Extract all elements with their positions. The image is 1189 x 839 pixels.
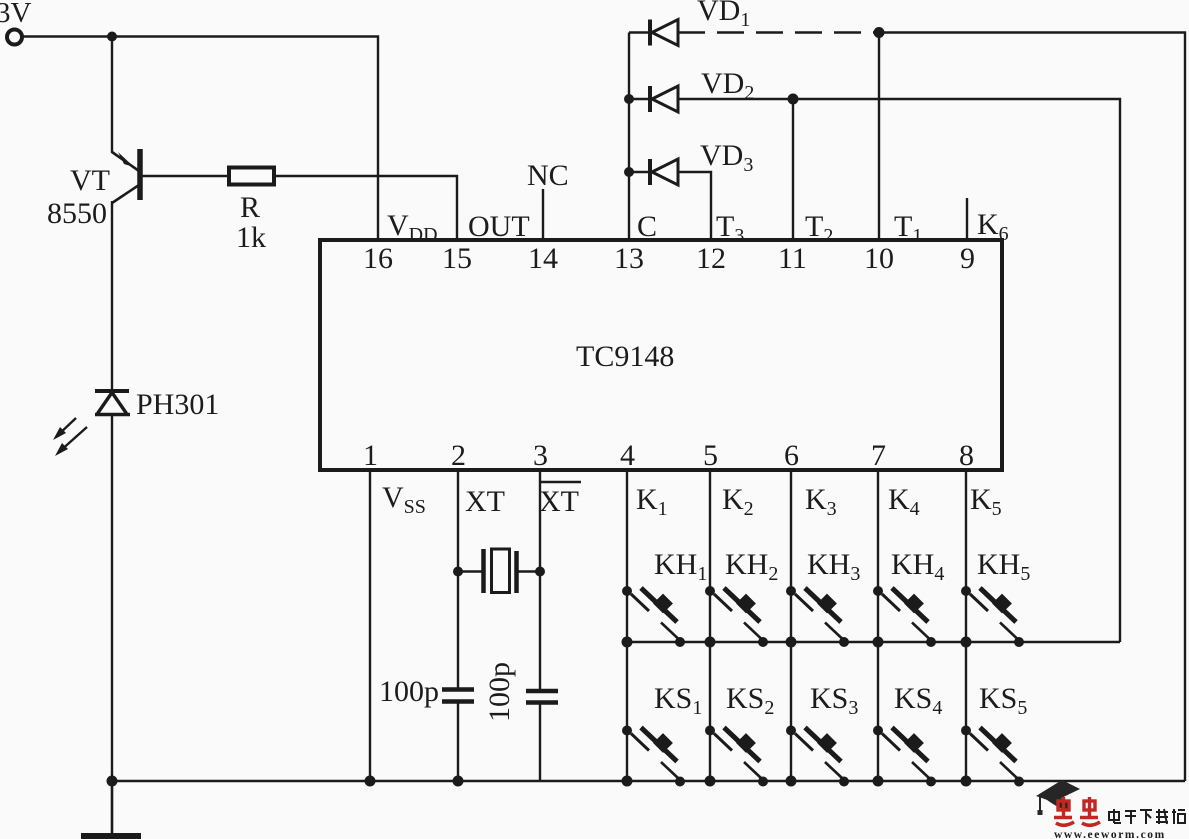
node KH rail col7 <box>873 637 884 648</box>
node KS rail col4 <box>622 776 633 787</box>
svg-text:1: 1 <box>363 439 378 472</box>
svg-text:8: 8 <box>959 439 974 472</box>
resistor R body <box>229 168 274 185</box>
node pin2 rail <box>453 776 464 787</box>
wire pin2 below cap <box>457 703 459 781</box>
wire top rail from terminal to VDD corner <box>23 37 379 241</box>
switch KS4 <box>873 726 936 787</box>
svg-text:10: 10 <box>864 242 894 275</box>
crystal body <box>492 549 510 593</box>
svg-text:7: 7 <box>871 439 886 472</box>
crystal XT node left <box>453 567 463 577</box>
transistor collector <box>112 185 139 203</box>
wire VD2 left lead <box>629 98 650 100</box>
diode VD1 <box>650 20 678 46</box>
crystal XT node right <box>535 567 545 577</box>
svg-text:C: C <box>637 210 657 243</box>
logo cap board <box>1036 780 1080 802</box>
LED cathode bar <box>95 389 129 393</box>
node KS rail col8 <box>961 776 972 787</box>
node VD2 left <box>624 94 634 104</box>
char zhan <box>1172 811 1176 813</box>
switch KS5 <box>961 726 1024 787</box>
char dian <box>1109 812 1119 820</box>
ground <box>81 833 141 839</box>
node pin1 rail <box>365 776 376 787</box>
node KH rail col8 <box>961 637 972 648</box>
logo cap base <box>1043 793 1070 812</box>
node junction at emitter column <box>107 32 117 42</box>
wire to ground symbol <box>111 781 114 834</box>
svg-text:XT: XT <box>539 485 579 518</box>
logo worm 2 <box>1080 797 1100 825</box>
LED anode bar <box>95 413 130 417</box>
char zai <box>1156 811 1168 813</box>
svg-text:1k: 1k <box>236 221 266 254</box>
wire column pin6 <box>790 470 792 781</box>
switch KH1 <box>622 586 685 647</box>
switch KH5 <box>961 586 1024 647</box>
emission arrow 1 <box>57 418 76 436</box>
svg-text:15: 15 <box>442 242 472 275</box>
svg-text:13: 13 <box>614 242 644 275</box>
wire T2 drop to pin 11 <box>792 99 794 240</box>
wire emitter drop <box>111 37 113 154</box>
char zi <box>1125 810 1136 812</box>
capacitor C1 100p plates <box>442 687 474 692</box>
wire VD1 left lead <box>629 31 650 33</box>
wire T1 drop to pin 10 <box>878 33 880 241</box>
transistor emitter with arrow <box>112 152 139 171</box>
node KS rail col6 <box>786 776 797 787</box>
wire collector drop <box>111 201 113 391</box>
svg-text:www.eeworm.com: www.eeworm.com <box>1054 829 1166 839</box>
wire column pin7 <box>877 470 879 781</box>
node KS rail col5 <box>705 776 716 787</box>
wire bottom rail <box>112 780 1185 782</box>
svg-text:12: 12 <box>696 242 726 275</box>
node KH rail col4 <box>622 637 633 648</box>
svg-text:TC9148: TC9148 <box>576 340 674 373</box>
logo tassel <box>1039 797 1041 810</box>
svg-text:16: 16 <box>363 242 393 275</box>
wire VD2 output <box>678 99 1120 642</box>
svg-text:4: 4 <box>620 439 635 472</box>
wire pin1 VSS drop <box>369 470 371 781</box>
svg-text:VT: VT <box>70 164 110 197</box>
wire KH rail <box>627 641 1120 643</box>
char xia <box>1140 809 1152 811</box>
svg-text:9: 9 <box>960 242 975 275</box>
node KH rail col5 <box>705 637 716 648</box>
transistor VT base bar <box>137 149 143 200</box>
diode VD3 <box>650 159 678 185</box>
crystal leads <box>458 570 483 573</box>
LED triangle <box>98 393 127 414</box>
logo chinese text <box>1109 809 1185 824</box>
svg-text:OUT: OUT <box>468 210 530 243</box>
wire resistor to OUT pin corner <box>274 176 457 240</box>
svg-text:14: 14 <box>528 242 558 275</box>
wire VD1 to right edge <box>879 33 1185 782</box>
crystal plates <box>481 549 486 593</box>
node VD3 left <box>624 167 634 177</box>
wire pin2 XT drop upper <box>457 470 459 688</box>
svg-text:PH301: PH301 <box>136 388 219 421</box>
node KS rail col7 <box>873 776 884 787</box>
svg-text:6: 6 <box>784 439 799 472</box>
switch KS1 <box>622 726 685 787</box>
switch KH2 <box>705 586 768 647</box>
node T1 tap <box>874 27 885 38</box>
wire column pin4 <box>626 470 628 781</box>
switch KH3 <box>786 586 849 647</box>
svg-text:2: 2 <box>451 439 466 472</box>
wire VD3 output to pin 12 <box>678 172 711 240</box>
diode VD2 <box>650 86 678 112</box>
svg-text:XT: XT <box>465 485 505 518</box>
wire LED to ground rail <box>111 414 113 782</box>
svg-text:3: 3 <box>533 439 548 472</box>
wire NC stub <box>542 189 544 240</box>
svg-text:8550: 8550 <box>47 197 107 230</box>
svg-text:100p: 100p <box>483 662 516 722</box>
wire base to resistor <box>140 175 229 177</box>
svg-text:100p: 100p <box>379 675 439 708</box>
wire column pin5 <box>709 470 711 781</box>
wire pin3 XTbar drop upper <box>539 470 541 689</box>
svg-text:R: R <box>240 191 260 224</box>
op-amp U1 TC9148 body <box>320 240 1002 470</box>
terminal 3V <box>7 30 22 45</box>
emission arrow 2 <box>59 427 87 452</box>
svg-text:NC: NC <box>527 159 569 192</box>
capacitor C2 100p plates <box>526 689 558 694</box>
node ground rail left <box>107 776 118 787</box>
node KH rail col6 <box>786 637 797 648</box>
svg-text:5: 5 <box>703 439 718 472</box>
wire pin3 below cap <box>539 704 541 781</box>
switch KH4 <box>873 586 936 647</box>
switch KS3 <box>786 726 849 787</box>
switch KS2 <box>705 726 768 787</box>
svg-text:3V: 3V <box>0 0 32 29</box>
wire VD1 output dashed <box>678 31 879 33</box>
wire diode column <box>628 33 630 241</box>
wire VD3 left lead <box>629 171 650 173</box>
node T2 tap <box>788 94 799 105</box>
svg-text:11: 11 <box>778 242 807 275</box>
wire K6 stub pin 9 <box>966 198 968 240</box>
logo worm 1 <box>1054 797 1074 825</box>
wire column pin8 <box>965 470 967 781</box>
